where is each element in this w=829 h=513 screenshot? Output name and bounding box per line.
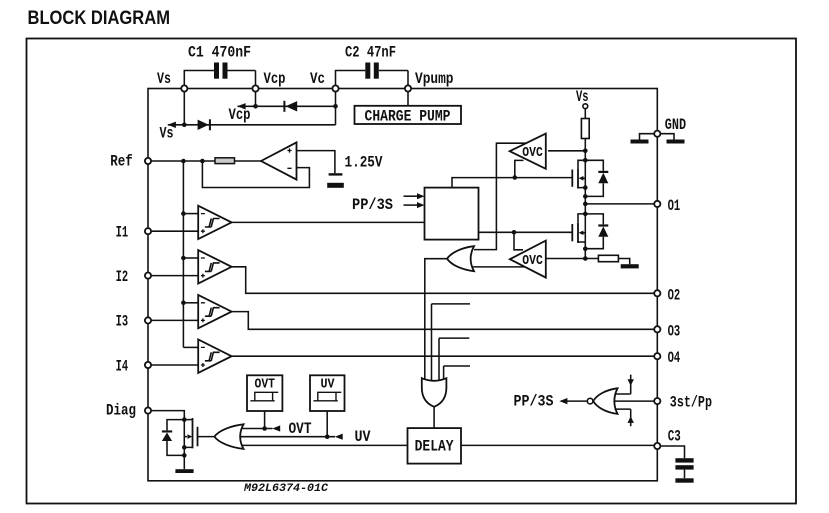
svg-text:I3: I3: [116, 313, 129, 331]
wire delay feedback line: [243, 444, 408, 446]
transistor M2: [571, 224, 573, 241]
svg-text:OVC: OVC: [522, 146, 543, 161]
node 3st/Pp: [654, 398, 660, 404]
block OVT monitor: [247, 375, 282, 411]
wire 3st gate bottom tap: [615, 409, 631, 426]
svg-text:Vs: Vs: [576, 88, 589, 106]
wire Vcp node drop: [255, 92, 257, 107]
node O2: [654, 290, 660, 296]
wire Vs to resistor: [584, 109, 586, 119]
wire internal Vcp line: [238, 105, 336, 107]
wire power rail: [584, 139, 586, 259]
resistor R-source: [598, 255, 618, 261]
svg-text:I1: I1: [116, 224, 129, 242]
svg-text:Vpump: Vpump: [415, 70, 454, 88]
svg-text:C3: C3: [668, 428, 681, 446]
node Vs: [181, 85, 187, 91]
diode to Vcp: [286, 101, 298, 111]
svg-text:Vs: Vs: [157, 70, 171, 88]
svg-text:GND: GND: [665, 116, 686, 134]
junction Vcp-line: [253, 104, 258, 109]
svg-text:BLOCK DIAGRAM: BLOCK DIAGRAM: [28, 8, 171, 29]
svg-text:O1: O1: [668, 197, 681, 215]
wire Diag pin lead: [151, 411, 184, 420]
or-gate OR-OVC: [447, 246, 474, 271]
wire OVT line: [242, 428, 273, 430]
node O4: [654, 353, 660, 359]
wire O1 row: [585, 203, 654, 205]
svg-text:C1 470nF: C1 470nF: [188, 44, 251, 62]
wire diag ground rail: [183, 420, 185, 470]
block PP/3S logic: [425, 188, 479, 240]
node Vs supply: [583, 104, 588, 109]
wire I4 row: [151, 364, 198, 366]
resistor R-ref: [215, 158, 235, 164]
capacitor 1.25V cell: [329, 173, 343, 175]
junction Vc-line: [333, 104, 338, 109]
svg-text:CHARGE PUMP: CHARGE PUMP: [365, 108, 451, 126]
wire OR-delay output: [433, 407, 435, 429]
resistor R-Vs: [581, 119, 589, 139]
wire Vc node drop: [335, 92, 337, 125]
svg-text:M92L6374-01C: M92L6374-01C: [243, 483, 328, 495]
wire comp1 output: [232, 221, 425, 223]
svg-text:C2 47nF: C2 47nF: [345, 44, 396, 62]
junction rail dots: [583, 149, 588, 154]
diode D-diag: [167, 420, 184, 456]
capacitor C3 external: [660, 446, 684, 478]
wire to source ground: [618, 259, 629, 265]
node GND: [654, 131, 660, 137]
wire I3 row: [151, 319, 198, 321]
node I2: [145, 273, 151, 279]
node Vcp: [252, 85, 258, 91]
wire UV drop: [326, 411, 328, 437]
ground source bar: [621, 264, 639, 268]
arrow PP/3S input 1: [404, 195, 418, 197]
svg-text:Vcp: Vcp: [264, 70, 286, 88]
transistor M-diag: [192, 418, 194, 448]
block DELAY: [408, 428, 462, 464]
node Vpump: [405, 85, 411, 91]
wire comp3 output: [232, 312, 655, 330]
svg-text:Diag: Diag: [106, 402, 136, 420]
svg-text:OVT: OVT: [255, 378, 276, 393]
comparator A2: [183, 257, 198, 259]
wire OR-OVC output: [425, 259, 447, 385]
wire Vpump drop: [407, 92, 409, 106]
svg-text:O3: O3: [668, 322, 681, 340]
or-gate OR-diag: [214, 424, 243, 449]
svg-text:1.25V: 1.25V: [345, 154, 384, 172]
svg-text:Ref: Ref: [110, 153, 133, 171]
junction Vs-line: [182, 123, 187, 128]
op-amp U-ref: [261, 142, 297, 179]
svg-text:DELAY: DELAY: [415, 437, 455, 455]
ground C3 bar: [675, 478, 693, 482]
junction gate1 tap: [513, 175, 518, 180]
wire tap O3: [439, 338, 469, 387]
op-amp OVC1: [510, 134, 546, 169]
wire Ref row: [151, 160, 215, 162]
wire comp2 output: [232, 267, 655, 294]
ground diag bar: [175, 469, 193, 473]
svg-text:UV: UV: [321, 378, 336, 393]
wire 3st/Pp pin lead: [612, 400, 654, 402]
node Diag: [145, 408, 151, 414]
wire OVT drop: [264, 411, 266, 429]
wire comp4 output: [232, 355, 655, 357]
node I4: [145, 362, 151, 368]
svg-text:O4: O4: [668, 349, 681, 367]
node O3: [654, 326, 660, 332]
wire op-amp feedback: [202, 161, 309, 188]
capacitor C1: [184, 71, 255, 86]
wire M1 gate line: [452, 178, 572, 188]
ground GND right bar: [660, 134, 674, 140]
wire resistor to op-amp: [235, 160, 262, 162]
wire reference rail: [182, 161, 184, 347]
junction Ref-rail: [181, 159, 186, 164]
IC boundary box: [148, 89, 657, 481]
transistor M1: [571, 170, 573, 187]
wire internal Vs line: [168, 124, 336, 126]
wire M2 source line: [546, 258, 599, 260]
op-amp OVC2: [510, 241, 546, 278]
comparator A1: [183, 213, 198, 215]
wire OVC1 gate tap: [515, 160, 524, 177]
junction gate2 tap: [512, 230, 517, 235]
block UV monitor: [310, 375, 345, 411]
node Vc: [332, 85, 338, 91]
svg-text:UV: UV: [355, 428, 372, 446]
capacitor C2: [336, 71, 409, 86]
wire I1 row: [151, 230, 198, 232]
wire OVC1 sense: [548, 150, 585, 152]
arrow Vs out: [168, 122, 176, 128]
charge pump block: [355, 106, 462, 124]
comparator A4: [183, 346, 198, 348]
wire Vs node drop: [183, 92, 185, 125]
arrow PP/3S output: [567, 400, 587, 402]
arrow Vcp out: [237, 103, 245, 109]
ground GND left bar: [640, 134, 655, 140]
junction Ref-feedback: [200, 159, 205, 164]
svg-text:PP/3S: PP/3S: [352, 196, 393, 214]
comparator A3: [183, 302, 198, 304]
arrow PP/3S input 2: [404, 204, 418, 206]
nor-gate G-3st: [593, 388, 617, 414]
wire DELAY output: [461, 444, 654, 446]
wire UV line: [238, 436, 336, 438]
wire tap O2: [432, 304, 471, 385]
svg-text:OVT: OVT: [289, 420, 312, 438]
wire OVC2 output tap: [471, 266, 525, 268]
svg-text:3st/Pp: 3st/Pp: [670, 393, 712, 411]
wire OVC1 output to OR: [474, 143, 527, 249]
svg-text:Vcp: Vcp: [229, 106, 251, 124]
svg-text:Vs: Vs: [160, 125, 174, 143]
wire M2 gate line: [479, 231, 573, 233]
wire tap O4: [444, 366, 470, 389]
wire OVC2 gate tap: [514, 232, 523, 250]
node C3: [654, 443, 660, 449]
diode D-M1 body: [585, 160, 603, 196]
wire op-amp plus input: [297, 151, 335, 174]
diode from Vs: [198, 120, 209, 130]
svg-text:O2: O2: [668, 286, 681, 304]
svg-text:I2: I2: [116, 268, 129, 286]
node Ref: [145, 158, 151, 164]
node I3: [145, 317, 151, 323]
svg-text:PP/3S: PP/3S: [514, 393, 554, 411]
node O1: [654, 201, 660, 207]
svg-text:Vc: Vc: [310, 70, 325, 88]
svg-text:I4: I4: [116, 357, 129, 375]
wire 3st gate top tap: [615, 375, 631, 394]
or-gate OR-delay 4-input: [422, 378, 447, 407]
wire I2 row: [151, 275, 198, 277]
svg-text:OVC: OVC: [522, 254, 543, 269]
wire M-diag gate: [198, 436, 215, 438]
diode D-M2 body: [585, 214, 603, 249]
node I1: [145, 228, 151, 234]
